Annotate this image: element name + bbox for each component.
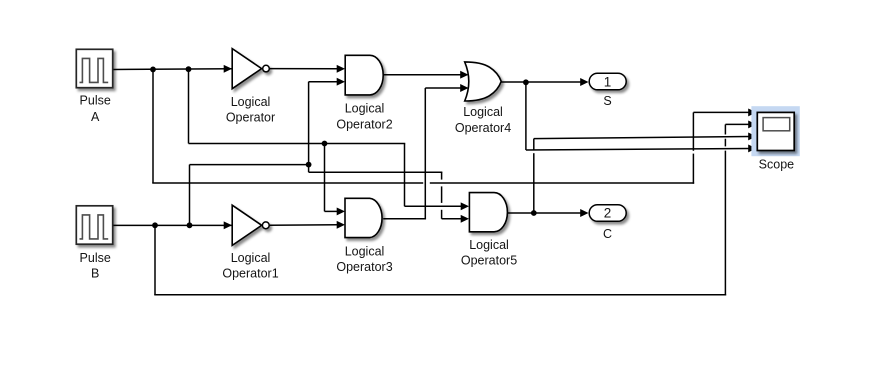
wire S down <box>525 82 527 150</box>
svg-text:A: A <box>91 110 100 124</box>
output port Out1 <box>589 73 626 90</box>
wire Pulse B output to NOT1 input <box>114 224 232 226</box>
wire A branch down to AND3 in1 <box>324 144 326 212</box>
wire A down to AND5 in1 row <box>404 144 406 207</box>
arrowhead into Logical Operator1 input <box>224 221 232 229</box>
svg-text:Logical: Logical <box>231 251 271 265</box>
wire NOT1 output to AND3 in2 <box>269 224 338 227</box>
arrowhead AND2 in2 <box>337 78 345 86</box>
node junction A3 <box>322 141 328 147</box>
wire B horizontal row to junction B3 <box>190 164 309 166</box>
scope screen <box>763 118 790 131</box>
svg-text:Logical: Logical <box>463 105 503 119</box>
wire B into AND2 in2 <box>309 81 338 83</box>
wire A long horizontal to scope column <box>152 182 694 184</box>
scope block <box>757 112 794 150</box>
svg-text:B: B <box>91 267 99 281</box>
arrowhead AND3 in2 <box>337 221 345 229</box>
arrowhead Out2 <box>580 209 588 217</box>
svg-text:1: 1 <box>604 75 612 90</box>
wire B down to AND5 in2 row <box>441 172 443 219</box>
arrowhead into Logical Operator input <box>224 65 232 73</box>
wire B horizontal to right <box>309 171 443 173</box>
svg-text:Logical: Logical <box>345 102 385 116</box>
wire AND3 output up <box>424 88 426 219</box>
NOT gate U2 Logical Operator1 <box>232 205 269 245</box>
AND gate U4 Logical Operator3 <box>345 198 382 237</box>
arrowhead OR4 in2 <box>460 84 468 92</box>
wire B down from junction B1 <box>154 225 156 294</box>
output port Out2 <box>589 205 626 222</box>
wire B bottom horizontal <box>154 294 726 296</box>
wire NOT output to AND2 in1 <box>270 68 339 70</box>
wire B jog down <box>308 165 310 173</box>
arrowhead scope in2 <box>748 120 756 128</box>
svg-text:Operator: Operator <box>226 111 275 125</box>
wire S to scope in4 <box>526 149 750 151</box>
wire C up <box>533 139 535 213</box>
svg-text:Pulse: Pulse <box>80 94 111 108</box>
node junction B3 <box>306 162 312 168</box>
wire AND5 output to Out2 C <box>507 212 582 214</box>
arrowhead scope in3 <box>748 132 756 140</box>
wire into OR4 in2 <box>425 87 461 89</box>
arrowhead AND2 in1 <box>337 65 345 73</box>
node junction B1 <box>152 222 158 228</box>
svg-text:C: C <box>603 227 612 241</box>
OR gate U5 Logical Operator4 <box>465 62 502 101</box>
wire Pulse A output to NOT input <box>114 68 232 71</box>
AND gate U6 Logical Operator5 <box>469 193 507 232</box>
svg-text:Pulse: Pulse <box>80 251 111 265</box>
wire B up from junction B2 <box>189 165 191 226</box>
node junction C <box>531 210 537 216</box>
arrowhead scope in4 <box>748 144 756 152</box>
pulse generator Pulse A <box>76 49 112 87</box>
wire A down from junction A1 <box>152 69 154 183</box>
wire A down from junction A2 <box>188 69 190 143</box>
svg-text:Logical: Logical <box>345 245 385 259</box>
wire A up to scope in1 level <box>692 112 694 183</box>
wire AND2 output to OR4 in1 <box>383 74 462 76</box>
arrowhead AND3 in1 <box>337 207 345 215</box>
arrowhead scope in1 <box>748 108 756 116</box>
svg-text:Logical: Logical <box>469 238 509 252</box>
node junction A1 <box>150 67 156 73</box>
svg-text:Operator4: Operator4 <box>455 121 511 135</box>
svg-text:Operator2: Operator2 <box>336 117 392 131</box>
scope selection halo <box>751 106 799 156</box>
svg-text:Operator5: Operator5 <box>461 254 517 268</box>
node junction S <box>523 79 529 85</box>
wire B up from junction B3 to AND2 in2 <box>308 82 310 165</box>
svg-text:Logical: Logical <box>231 95 271 109</box>
svg-text:S: S <box>603 94 611 108</box>
wire A horizontal mid row <box>189 143 406 145</box>
wire B into scope in2 <box>725 123 750 125</box>
wire B into AND5 in2 <box>442 218 462 220</box>
wire A into AND5 in1 <box>405 205 463 207</box>
arrowhead Out1 <box>580 78 588 86</box>
node junction A2 <box>186 66 192 72</box>
svg-text:2: 2 <box>604 206 612 221</box>
AND gate U3 Logical Operator2 <box>345 55 383 95</box>
wire A into scope in1 <box>693 111 750 113</box>
svg-text:Scope: Scope <box>759 157 794 171</box>
NOT gate U1 Logical Operator <box>232 49 269 89</box>
wire OR4 output to Out1 S <box>501 81 581 83</box>
wire B up to scope in2 level <box>724 124 726 295</box>
arrowhead AND5 in2 <box>461 215 469 223</box>
wire AND3 output right <box>383 218 426 220</box>
wire A into AND3 in1 <box>325 210 339 212</box>
arrowhead AND5 in1 <box>461 202 469 210</box>
arrowhead OR4 in1 <box>460 71 468 79</box>
wire C to scope in3 <box>534 137 750 139</box>
svg-text:Operator1: Operator1 <box>222 267 278 281</box>
svg-text:Operator3: Operator3 <box>336 260 392 274</box>
pulse generator Pulse B <box>76 206 112 244</box>
node junction B2 <box>187 222 193 228</box>
